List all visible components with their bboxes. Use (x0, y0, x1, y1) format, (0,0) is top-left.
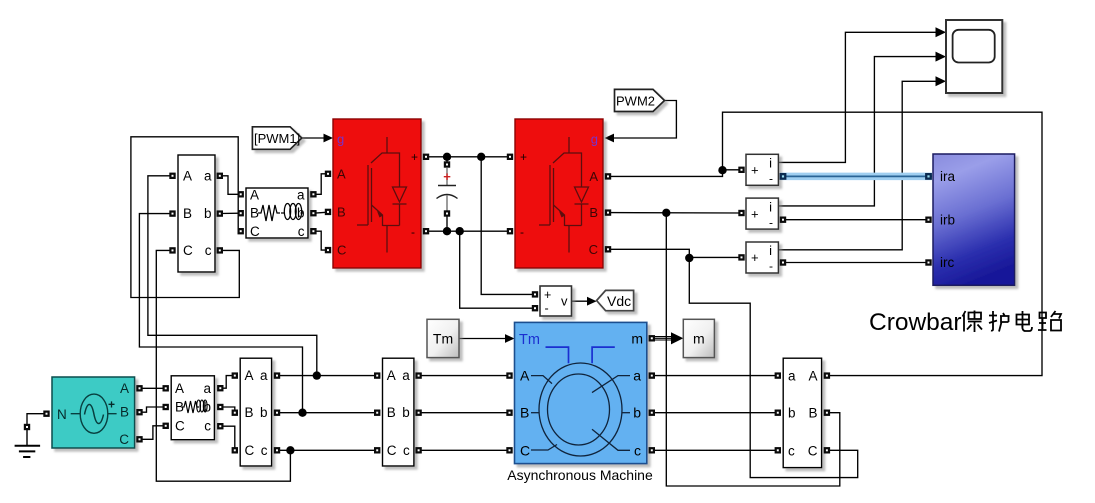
svg-text:N: N (57, 407, 67, 422)
svg-text:A: A (520, 368, 530, 384)
arrowhead scope input 3 (936, 76, 947, 86)
junction node rotor A (718, 166, 726, 174)
junction node rotor C (685, 254, 693, 262)
wire CM2 minus to crowbar irb (783, 219, 929, 221)
wire capacitor top stub (446, 157, 448, 165)
wire RLC1 c to red1 C (313, 231, 328, 250)
wire block4 b to machine B (419, 412, 510, 414)
arrowhead Tm to machine (505, 334, 515, 343)
svg-text:PWM2: PWM2 (616, 94, 655, 109)
junction node rotor B (662, 209, 670, 217)
scope block (946, 20, 1002, 93)
wire red2 A to CM1 plus (608, 170, 742, 177)
svg-text:g: g (337, 132, 344, 147)
wire capacitor bottom stub (446, 214, 448, 232)
svg-text:+: + (411, 150, 418, 164)
svg-text:c: c (298, 224, 305, 239)
arrowhead voltmeter to Vdc (587, 297, 597, 306)
svg-text:-: - (520, 225, 524, 239)
arrowhead m bus (671, 332, 683, 344)
three-phase series RLC branch RLC2 (171, 376, 214, 440)
wire m bus machine to m block (652, 337, 672, 340)
wire CM3 i to scope input 3 (778, 81, 937, 250)
port ground (24, 424, 30, 430)
svg-text:irc: irc (940, 255, 954, 270)
svg-text:c: c (205, 243, 212, 258)
svg-text:A: A (589, 169, 598, 184)
terminator block m (683, 319, 714, 357)
wire bus phase A block3 a to block4 A (277, 375, 377, 377)
svg-text:B: B (387, 405, 396, 420)
wire machine c to block5 c (652, 449, 778, 451)
svg-text:C: C (337, 243, 346, 258)
ports CM2 (738, 210, 786, 223)
voltage measurement block Vdc meter (540, 286, 572, 316)
ports machine (506, 335, 655, 453)
svg-text:Crowbar: Crowbar (869, 309, 962, 336)
svg-text:C: C (183, 243, 193, 258)
svg-text:B: B (808, 406, 817, 421)
ports RLC1 (238, 191, 317, 234)
svg-text:a: a (204, 168, 212, 183)
svg-text:C: C (808, 443, 818, 458)
wire CM3 minus to crowbar irc (783, 262, 929, 264)
svg-text:A: A (245, 368, 254, 383)
svg-text:C: C (387, 443, 397, 458)
wire CM2 i to scope input 2 (778, 57, 937, 206)
svg-text:B: B (337, 204, 346, 219)
svg-text:Tm: Tm (433, 331, 453, 347)
svg-text:m: m (631, 331, 643, 347)
wire voltmeter v to Vdc tag (571, 300, 589, 302)
svg-text:-: - (411, 225, 415, 239)
svg-text:+: + (751, 163, 759, 178)
wire machine a to block5 a (652, 375, 778, 377)
wire RLC2 a to block3 A (220, 376, 235, 389)
svg-text:ira: ira (940, 169, 955, 184)
wire selected signal CM1 minus to crowbar ira highlighted (780, 173, 932, 181)
svg-text:b: b (633, 405, 641, 421)
from tag PWM2 (615, 89, 665, 111)
svg-text:A: A (183, 168, 192, 183)
svg-text:b: b (788, 406, 796, 421)
svg-text:+: + (544, 288, 551, 302)
ports CM3 (738, 254, 786, 265)
wire ground to source N (27, 414, 47, 424)
svg-text:c: c (634, 442, 641, 458)
svg-text:B: B (245, 405, 254, 420)
svg-text:i: i (769, 199, 772, 214)
wire RLC1 a to red1 A (313, 174, 328, 195)
svg-text:C: C (250, 224, 260, 239)
wire source B to RLC2 B (140, 407, 166, 412)
ports block4 (374, 372, 422, 453)
svg-text:A: A (337, 166, 346, 181)
arrowhead scope input 1 (936, 27, 947, 37)
wire DC plus rail red1 to red2 (426, 156, 510, 158)
wire RLC2 c to block3 C (220, 426, 235, 450)
three-phase VI measurement block5 rotor (783, 358, 821, 467)
label Crowbar protection circuit (869, 309, 1061, 336)
svg-text:C: C (119, 432, 129, 447)
junction node DC minus voltmeter branch (456, 227, 464, 235)
svg-text:a: a (203, 381, 211, 396)
svg-text:b: b (204, 206, 212, 221)
junction node DC plus voltmeter branch (477, 153, 485, 161)
svg-text:A: A (120, 381, 129, 396)
wire DC minus to voltmeter minus (460, 231, 535, 308)
svg-text:B: B (520, 405, 529, 421)
svg-text:a: a (297, 187, 305, 202)
svg-text:a: a (260, 368, 268, 383)
from tag PWM1 (252, 127, 301, 150)
asynchronous machine block (515, 322, 647, 463)
wire red2 C to CM3 plus (608, 249, 742, 257)
wire DC plus to voltmeter plus (481, 157, 535, 295)
svg-text:B: B (183, 206, 192, 221)
ports block5 (775, 372, 831, 453)
wire bus phase C block3 c to block4 C (277, 449, 377, 451)
universal bridge converter U2 red2 (515, 119, 603, 268)
wire DC minus rail red1 to red2 (426, 230, 510, 232)
wire bus phase B block3 b to block4 B (277, 412, 377, 414)
junction node bus A tap (313, 371, 321, 379)
wire rotor C feedback (689, 258, 857, 478)
ports CM1 (738, 167, 786, 180)
wire block4 a to machine A (419, 375, 510, 377)
ground symbol (15, 430, 40, 457)
wire tap phase A to block1 A input (148, 176, 317, 376)
ports red2 (507, 154, 611, 253)
svg-text:B: B (120, 405, 129, 420)
junction node DC minus capacitor (443, 227, 451, 235)
svg-text:[PWM1]: [PWM1] (254, 131, 300, 146)
svg-text:-: - (769, 172, 773, 186)
svg-text:c: c (204, 418, 211, 433)
wire source A to RLC2 A (140, 387, 166, 389)
svg-text:a: a (788, 369, 796, 384)
svg-text:A: A (175, 381, 184, 396)
wire RLC1 b to red1 B (313, 212, 328, 213)
wire rotor B feedback (666, 213, 840, 486)
three-phase VI measurement block1 top (178, 155, 215, 272)
ports block3 (232, 372, 281, 453)
wire CM1 i to scope input 1 (778, 32, 937, 162)
crowbar protection subsystem block (933, 154, 1015, 285)
ports red1 (325, 154, 429, 254)
svg-text:g: g (591, 132, 598, 147)
svg-text:c: c (261, 443, 268, 458)
current measurement CM1 (746, 154, 778, 185)
svg-text:C: C (589, 242, 598, 257)
wire block4 c to machine C (419, 449, 510, 451)
junction node bus B tap (298, 409, 306, 417)
ports block1 (169, 173, 223, 254)
svg-text:-: - (769, 215, 773, 229)
wire block1 b to RLC1 B (220, 212, 241, 214)
svg-text:i: i (769, 156, 772, 171)
wire red2 B to CM2 plus (608, 212, 742, 214)
wire block1 a to RLC1 A (220, 176, 241, 195)
svg-text:c: c (788, 443, 795, 458)
svg-text:A: A (808, 369, 817, 384)
svg-text:C: C (245, 443, 255, 458)
current measurement CM3 (746, 242, 778, 273)
goto tag Vdc (597, 290, 634, 310)
svg-text:v: v (561, 294, 568, 309)
junction node DC plus capacitor (443, 153, 451, 161)
svg-text:c: c (403, 443, 410, 458)
wire tap phase C to block1 C input (156, 250, 290, 481)
arrowhead PWM1 to red1 g (324, 134, 334, 143)
three-phase VI measurement block3 (240, 358, 271, 466)
svg-text:+: + (751, 206, 759, 221)
wire machine b to block5 b (652, 412, 778, 414)
svg-text:+: + (443, 169, 451, 184)
junction node bus C tap (286, 446, 294, 454)
wire Tm block to machine Tm (459, 338, 507, 340)
svg-text:b: b (260, 405, 268, 420)
universal bridge converter U1 red1 (333, 119, 421, 268)
wire RLC2 b to block3 B (220, 407, 235, 413)
svg-text:-: - (769, 259, 773, 273)
svg-text:Vdc: Vdc (607, 293, 631, 309)
ports RLC2 (163, 385, 224, 429)
arrowhead scope input 2 (936, 52, 947, 62)
svg-text:i: i (769, 243, 772, 258)
ports source (43, 385, 142, 442)
svg-text:-: - (545, 302, 549, 316)
svg-text:A: A (387, 368, 396, 383)
svg-text:+: + (520, 150, 527, 164)
svg-text:B: B (250, 206, 259, 221)
wire PWM2 to red2 g (613, 101, 676, 139)
wire PWM1 to red1 g (302, 137, 325, 139)
ports capacitor (444, 161, 450, 216)
svg-text:m: m (693, 331, 705, 347)
current measurement CM2 (746, 198, 778, 229)
arrowhead PWM2 to red2 g (605, 134, 615, 143)
svg-text:+: + (108, 398, 115, 412)
svg-text:C: C (520, 442, 530, 458)
three-phase programmable voltage source (52, 377, 135, 448)
wire rotor A feedback rail (723, 112, 1043, 375)
svg-text:+: + (751, 250, 759, 265)
ports crowbar (925, 173, 932, 266)
svg-text:irb: irb (940, 212, 955, 227)
svg-text:a: a (402, 368, 410, 383)
svg-text:Asynchronous Machine: Asynchronous Machine (507, 467, 653, 483)
svg-text:a: a (633, 368, 641, 384)
three-phase VI measurement block4 (383, 358, 414, 466)
wire block1 c loop to RLC1 C (131, 137, 241, 298)
svg-text:A: A (250, 187, 259, 202)
svg-text:C: C (175, 418, 185, 433)
wire tap phase B to block1 B input (139, 214, 302, 413)
ports voltmeter (532, 291, 538, 311)
three-phase series RLC branch RLC1 (246, 187, 308, 239)
constant block Tm (427, 319, 459, 357)
wire source C to RLC2 C (140, 426, 166, 440)
svg-text:Tm: Tm (519, 332, 540, 348)
svg-text:B: B (589, 205, 598, 220)
svg-text:b: b (402, 405, 410, 420)
capacitor C1 DC link (437, 168, 458, 214)
